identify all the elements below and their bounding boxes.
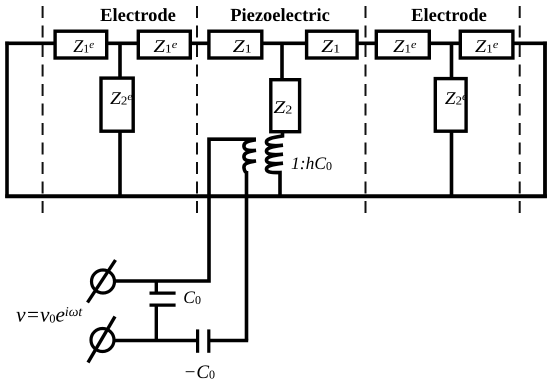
svg-text:Electrode: Electrode — [100, 6, 176, 26]
resistor box Z1e #3 — [376, 31, 429, 58]
source terminal top (circle with slash) — [88, 260, 116, 303]
impedance box Z1 #1 — [209, 31, 262, 58]
capacitor -C0 (series) — [198, 329, 209, 352]
wire: shunt stub left Z2e — [118, 43, 122, 196]
dashed section boundary line 1 — [42, 6, 44, 219]
wire: -C0 to primary coil drop — [210, 339, 248, 342]
transformer primary coil (left) — [244, 140, 256, 173]
shunt box Z2e left — [101, 78, 133, 131]
svg-text:Piezoelectric: Piezoelectric — [230, 6, 330, 26]
dashed section boundary line 4 — [519, 6, 521, 219]
wire: primary coil bottom drop to -C0 branch — [245, 171, 249, 341]
resistor box Z1e #4 — [460, 31, 513, 58]
impedance box Z1 #2 — [307, 31, 358, 58]
svg-text:Electrode: Electrode — [411, 6, 487, 26]
dashed section boundary line 2 — [196, 6, 198, 219]
wire: source top lead, up and over to primary coil top — [115, 139, 257, 281]
transformer secondary coil (right) — [266, 131, 283, 196]
shunt box Z2e right — [435, 79, 467, 132]
wire: shunt stub middle Z2 (top only) — [280, 43, 284, 82]
wire: shunt stub right Z2e — [450, 43, 454, 196]
svg-text:1:hC0: 1:hC0 — [291, 153, 332, 173]
wire: top bus — [5, 41, 547, 45]
resistor box Z1e #1 — [55, 31, 107, 58]
shunt box Z2 middle — [271, 80, 300, 132]
wire: right vertical — [543, 41, 547, 198]
wire: source bottom lead — [114, 339, 197, 342]
dashed section boundary line 3 — [365, 6, 367, 219]
wire: left vertical — [5, 41, 9, 198]
resistor box Z1e #2 — [138, 31, 190, 58]
source terminal bottom (circle with slash) — [88, 317, 115, 363]
wire: bottom bus — [5, 194, 547, 198]
capacitor C0 — [150, 281, 176, 341]
